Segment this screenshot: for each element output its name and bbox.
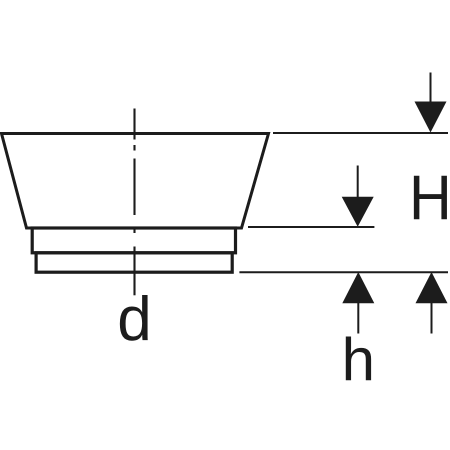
arrow stem h bottom (357, 303, 359, 334)
label H (409, 167, 450, 230)
arrowhead H bottom (up) (416, 272, 448, 303)
label h (342, 330, 375, 390)
arrow stem h top (357, 166, 359, 198)
extension line bottom (H/h lower reference) (239, 271, 448, 273)
arrowhead h bottom (up) (342, 272, 374, 303)
arrow stem H bottom (431, 303, 433, 334)
arrowhead h top (down) (342, 197, 374, 227)
centerline (vertical dash-dot axis) (133, 109, 135, 296)
part body: lower flange band (36, 253, 232, 272)
label d (117, 289, 151, 351)
arrow stem H top (430, 73, 432, 103)
part body: tapered cone section (2, 134, 269, 229)
arrowhead H top (down) (415, 102, 447, 133)
extension line middle (h upper reference) (248, 226, 374, 228)
part body: upper flange band (32, 228, 235, 253)
extension line top (H upper reference) (273, 132, 448, 134)
